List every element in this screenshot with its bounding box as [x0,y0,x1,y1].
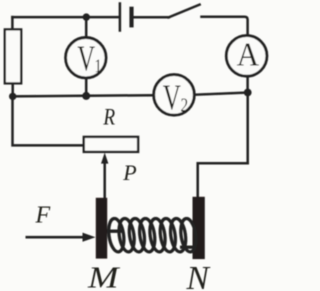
battery long plate [119,4,122,31]
plate N (dark bar) [193,197,205,259]
plate M (dark bar) [96,198,107,259]
node A junction dot (top, V1 tap) [83,13,90,20]
svg-text:F: F [35,202,51,228]
voltmeter V1 circle [66,38,106,78]
battery short plate [129,9,133,26]
node B junction dot (right bus) [244,89,252,97]
wire V1 branch from top bus [85,17,88,38]
wire V1 to bottom bus [85,78,88,96]
svg-text:V: V [77,37,95,78]
svg-text:1: 1 [94,55,101,76]
rheostat R body [84,137,138,152]
resistor lead to node D [11,83,14,96]
svg-text:P: P [122,160,136,185]
svg-text:2: 2 [181,93,189,116]
svg-text:N: N [186,260,211,291]
wire left side down to rheostat [13,96,84,145]
wire wiper arrow shaft to plate M [103,163,106,198]
force arrow F head [83,233,96,242]
voltmeter V2 circle [154,75,195,116]
wire right horizontal and down to plate N [198,163,248,197]
wire ammeter to node B [246,76,249,92]
wire right side down [246,93,249,164]
svg-text:R: R [103,104,116,130]
wire top bus left [12,16,118,19]
svg-text:M: M [87,261,120,291]
resistor body [5,29,21,83]
spring coil between M and N [107,218,198,253]
svg-text:V: V [163,76,181,117]
switch blade [169,5,200,18]
wire battery to switch [134,16,169,19]
force arrow F shaft [26,236,85,239]
rheostat wiper arrowhead P [101,153,108,164]
node D junction dot (bus left / resistor) [9,93,16,100]
node C junction dot (bus / V1) [82,92,90,100]
wire bottom bus right segment [194,93,247,95]
wire switch contact to top-right corner [202,17,248,36]
resistor lead from top bus [11,17,14,29]
wire bottom bus left segment [13,95,155,96]
ammeter A circle [226,36,267,77]
svg-text:A: A [237,35,260,72]
